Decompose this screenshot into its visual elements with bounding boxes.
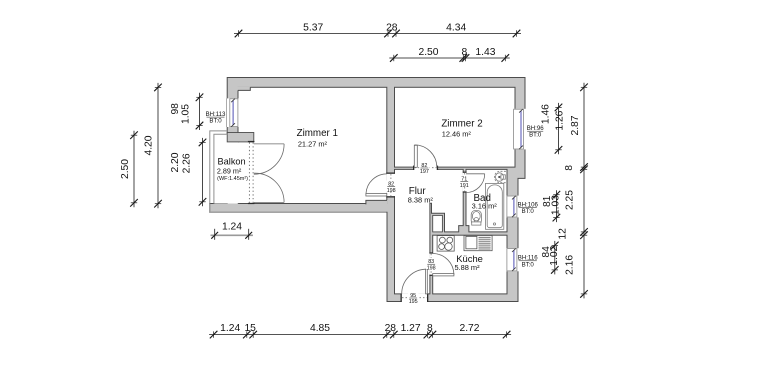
svg-text:197: 197 (420, 169, 429, 175)
svg-text:2.16: 2.16 (565, 255, 576, 275)
svg-text:1.27: 1.27 (401, 323, 421, 334)
svg-text:21.27 m²: 21.27 m² (298, 140, 328, 149)
svg-text:1.05: 1.05 (181, 104, 192, 124)
svg-text:2.50: 2.50 (418, 47, 438, 58)
svg-text:8: 8 (564, 165, 575, 171)
svg-text:2.87: 2.87 (570, 115, 581, 135)
svg-text:1.02: 1.02 (549, 245, 560, 265)
svg-text:8.38 m²: 8.38 m² (408, 196, 434, 205)
svg-text:BT:0: BT:0 (522, 261, 535, 268)
svg-text:98: 98 (170, 103, 181, 115)
svg-text:28: 28 (386, 23, 398, 34)
svg-text:1.03: 1.03 (550, 195, 561, 215)
svg-text:1.24: 1.24 (222, 221, 242, 232)
svg-text:4.34: 4.34 (446, 23, 466, 34)
svg-text:Zimmer 2: Zimmer 2 (441, 118, 482, 129)
svg-text:2.26: 2.26 (181, 153, 192, 173)
svg-text:15: 15 (244, 323, 256, 334)
svg-text:1.24: 1.24 (220, 323, 240, 334)
svg-text:1.46: 1.46 (541, 104, 552, 124)
svg-text:3.16 m²: 3.16 m² (472, 202, 498, 211)
svg-text:BT:0: BT:0 (209, 118, 222, 125)
svg-text:195: 195 (409, 299, 418, 305)
svg-text:BT:0: BT:0 (529, 132, 542, 139)
svg-text:198: 198 (387, 188, 396, 194)
svg-text:198: 198 (427, 265, 436, 271)
svg-text:1.43: 1.43 (475, 47, 495, 58)
svg-text:8: 8 (427, 323, 433, 334)
svg-text:1.26: 1.26 (555, 110, 566, 130)
svg-text:(WF:1.45m²): (WF:1.45m²) (217, 176, 248, 182)
svg-text:191: 191 (460, 183, 469, 189)
svg-text:8: 8 (462, 47, 468, 58)
svg-text:2.50: 2.50 (120, 159, 131, 179)
svg-text:2.25: 2.25 (565, 190, 576, 210)
svg-text:4.85: 4.85 (310, 323, 330, 334)
svg-text:4.20: 4.20 (144, 135, 155, 155)
svg-text:Balkon: Balkon (218, 157, 246, 167)
svg-text:12: 12 (557, 228, 568, 240)
svg-text:2.20: 2.20 (170, 152, 181, 172)
svg-text:2.72: 2.72 (459, 323, 479, 334)
svg-text:BT:0: BT:0 (522, 208, 535, 215)
svg-text:5.37: 5.37 (303, 23, 323, 34)
svg-text:2.89 m²: 2.89 m² (217, 166, 242, 175)
svg-text:12.46 m²: 12.46 m² (442, 130, 472, 139)
svg-text:28: 28 (385, 323, 397, 334)
svg-text:5.88 m²: 5.88 m² (454, 263, 480, 272)
svg-text:Zimmer 1: Zimmer 1 (297, 128, 338, 139)
